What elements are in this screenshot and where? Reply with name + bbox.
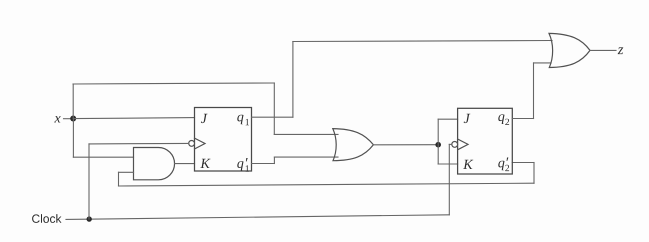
wire: x to J1 input (73, 118, 194, 119)
wire: clock feed to U2 bubble (449, 143, 452, 145)
clock bubble U1 (189, 141, 195, 147)
wire: AND gate top input (73, 156, 133, 158)
wire: q1 output (252, 116, 293, 118)
pin label q1' (237, 158, 249, 172)
wire: K2 input stub (438, 163, 457, 165)
signal label Clock (32, 214, 61, 223)
pin label q2' (498, 158, 509, 172)
node: J2/K2 tie junction dot (435, 142, 441, 148)
wire: OR2 top input (274, 133, 338, 135)
wire: J2 input stub (438, 118, 457, 120)
wire: q2' feedback drop (533, 163, 535, 184)
node: x junction dot (70, 116, 76, 122)
flip-flop U2 box (458, 108, 513, 174)
wire: q2 output (512, 118, 533, 120)
wire: q2' output (512, 162, 534, 164)
OR gate G2 (333, 129, 374, 161)
wire: clock main horizontal (66, 215, 449, 220)
wire: OR3 bottom input (534, 62, 552, 64)
flip-flop U1 box (195, 108, 252, 172)
pin label q1 (237, 115, 249, 126)
wire: clock riser to U2 (448, 144, 450, 214)
wire: q1' output (252, 163, 275, 165)
clock wedge U1 (195, 138, 206, 149)
pin label J (U1) (201, 114, 208, 123)
wire: x drop to AND gate (72, 119, 74, 158)
pin label K (U1) (200, 159, 210, 168)
clock wedge U2 (458, 139, 468, 150)
wire: q2' long feedback bottom line (119, 183, 535, 186)
wire: x feedback drop to OR2 top input level (273, 83, 275, 134)
wire: clock feed to U1 bubble (89, 142, 189, 145)
wire: x input lead (64, 118, 74, 120)
wire: feedback wrap riser (118, 172, 120, 186)
wire: clock riser to U1 (88, 144, 90, 219)
wire: AND gate bottom input (119, 171, 134, 173)
pin label q2 (498, 114, 509, 125)
OR gate G3 (549, 33, 590, 67)
wire: q1 riser to top line (292, 42, 294, 118)
wire: OR2 output to FF2 (373, 144, 438, 146)
wire: OR2 bottom input (274, 156, 338, 158)
wire: J2-K2 tie vertical (437, 119, 439, 164)
wire: q2 riser to OR3 (533, 63, 535, 119)
wire: q1 long top line to OR3 (293, 41, 550, 42)
wire: q1' jog up (273, 157, 275, 163)
node: clock junction dot (87, 216, 92, 221)
pin label K (U2) (463, 160, 473, 169)
signal label z (618, 47, 624, 54)
clock bubble U2 (452, 142, 458, 148)
wire: AND output to K1 (175, 163, 195, 165)
wire: x riser up to top feedback (72, 84, 74, 119)
wire: OR3 top input (550, 40, 552, 42)
AND gate A1 (134, 148, 175, 180)
wire: z output (590, 49, 616, 51)
pin label J (U2) (464, 114, 471, 123)
signal label x (54, 116, 60, 122)
wire: x top feedback horizontal to OR2 (73, 83, 274, 84)
